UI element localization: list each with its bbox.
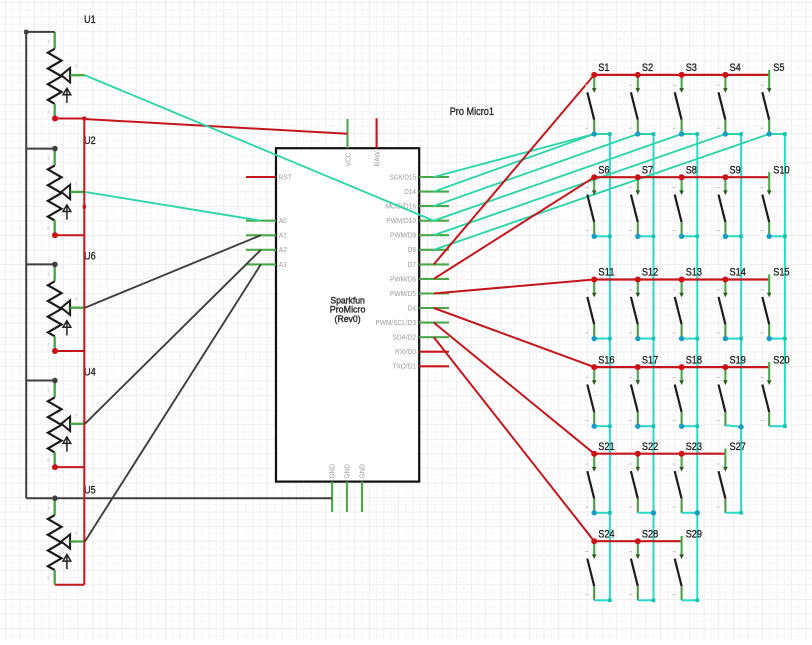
pin 2 (bottom) [637, 120, 639, 134]
wire column 3 vertical [696, 134, 698, 600]
switch S5 [760, 62, 784, 134]
wire S15 bottom to column [769, 338, 785, 340]
switch S21 [585, 441, 614, 513]
wire S12 bottom to column [638, 338, 654, 340]
svg-text:S29: S29 [686, 528, 702, 540]
pin 2 (bottom) [768, 120, 770, 134]
bendpoint column 5 [783, 235, 787, 239]
lever [762, 385, 769, 413]
junction S1 bottom [592, 131, 597, 136]
junction S4 top [722, 72, 728, 78]
wire S4 bottom to column [725, 133, 741, 135]
svg-text:S8: S8 [686, 164, 697, 176]
svg-text:S18: S18 [686, 354, 702, 366]
pin 1 (top) [593, 75, 595, 89]
potentiometer U5 [47, 484, 96, 584]
pin 1 (top) [593, 177, 595, 191]
junction U1 bottom [52, 116, 58, 122]
svg-text:RXI/D0: RXI/D0 [395, 349, 416, 356]
junction S11 bottom [592, 336, 597, 341]
wire U6 wiper to A1 [85, 235, 261, 308]
pin D14 [419, 191, 449, 193]
resistive element zigzag [48, 515, 62, 570]
switch S22 [629, 441, 658, 513]
wiper pin 3 [61, 417, 70, 431]
junction S8 bottom [679, 234, 684, 239]
adjustment arrow [66, 206, 68, 220]
pin 2 (bottom) [681, 586, 683, 600]
junction S17 bottom [635, 424, 640, 429]
wire S23 bottom to column [682, 512, 698, 514]
svg-text:(Rev0): (Rev0) [335, 314, 361, 324]
lever [719, 195, 726, 223]
svg-text:D7: D7 [408, 262, 416, 269]
lever [587, 297, 594, 325]
pin TXO/D1 [419, 365, 449, 367]
svg-text:U4: U4 [84, 367, 96, 379]
pin D7 [419, 263, 449, 265]
lever [631, 385, 638, 413]
bendpoint column 2 end [652, 599, 656, 603]
lever [587, 92, 594, 120]
junction S9 top [722, 174, 728, 180]
junction S15 bottom [767, 336, 772, 341]
switch S27 [716, 441, 745, 513]
pin 2 (bottom) [681, 412, 683, 426]
bendpoint column 4 [739, 132, 743, 136]
wire S22 bottom to column [638, 512, 654, 514]
svg-text:SDA/D2: SDA/D2 [393, 335, 417, 342]
svg-text:A2: A2 [279, 247, 287, 254]
svg-text:Pro Micro1: Pro Micro1 [450, 106, 494, 118]
IC body outline [276, 148, 419, 481]
svg-text:S14: S14 [730, 267, 746, 279]
bendpoint column 2 [652, 132, 656, 136]
pin A2 [246, 249, 276, 251]
lever [631, 195, 638, 223]
pin 2 (bottom) [768, 222, 770, 236]
pin 2 (bottom) [593, 586, 595, 600]
potentiometer U1 [47, 14, 96, 119]
bendpoint column 3 [696, 424, 700, 428]
junction S5 bottom [767, 131, 772, 136]
wire PWM/D6 to row 2 [434, 177, 594, 279]
wire column 2 vertical [653, 134, 655, 600]
pin PWM/D5 [419, 292, 449, 294]
junction S8 top [679, 174, 685, 180]
wire red bus: vertical [83, 119, 85, 585]
lever [675, 471, 682, 499]
svg-text:GND: GND [330, 464, 337, 479]
junction S17 top [635, 364, 641, 370]
switch S28 [629, 528, 658, 600]
potentiometer U2 [47, 135, 96, 235]
junction S13 bottom [679, 336, 684, 341]
wire S5 bottom to column [769, 133, 785, 135]
wire S21 bottom to column [594, 512, 610, 514]
adjustment arrow [66, 556, 68, 570]
adjustment arrow [66, 322, 68, 336]
svg-text:S15: S15 [773, 267, 789, 279]
lever [719, 385, 726, 413]
pin 1 (top) [593, 454, 595, 468]
pin 1 (top) [637, 177, 639, 191]
wire row 2 bus [594, 176, 769, 178]
wire U2 wiper to A0 [85, 192, 261, 221]
pin D4 [419, 307, 449, 309]
wire gray bus: branch to U2 top [26, 148, 55, 150]
svg-text:S21: S21 [598, 441, 614, 453]
pin A0 [246, 220, 276, 222]
wire S29 bottom to column end [682, 599, 698, 601]
bendpoint column 1 [608, 424, 612, 428]
pin 2 (bottom) [724, 120, 726, 134]
junction S12 top [635, 277, 641, 283]
svg-text:S12: S12 [642, 267, 658, 279]
pin 1 (top) [681, 280, 683, 294]
pin 2 (bottom) [593, 412, 595, 426]
junction S2 bottom [635, 131, 640, 136]
switch S24 [585, 528, 614, 600]
pin GND [346, 482, 348, 512]
pin 1 (top) [637, 75, 639, 89]
bendpoint column 1 [608, 132, 612, 136]
switch S8 [673, 164, 697, 236]
pin 2 (bottom) [593, 120, 595, 134]
pin 2 (bottom) [637, 222, 639, 236]
svg-text:VCC: VCC [345, 153, 352, 167]
pin 1 (top) [54, 264, 56, 281]
pin 2 (bottom) [724, 412, 726, 426]
junction U2 bottom [52, 232, 58, 238]
junction S23 top [679, 451, 685, 457]
bendpoint column 1 [608, 337, 612, 341]
pin 1 (top) [768, 70, 770, 89]
pin 1 (top) [593, 367, 595, 381]
potentiometer U6 [47, 251, 96, 351]
pin PWM/D10 [419, 220, 449, 222]
wire S8 bottom to column [682, 235, 698, 237]
switch S12 [629, 267, 658, 339]
wire gray bus: bottom run to GND pin [26, 497, 332, 499]
wire S16 bottom to column [594, 425, 610, 427]
svg-text:S19: S19 [730, 354, 746, 366]
switch S11 [585, 267, 614, 339]
wire S3 bottom to column [682, 133, 698, 135]
wire PWM/D10 to column 3 [434, 134, 682, 221]
pin 2 (bottom) [637, 412, 639, 426]
junction S7 top [635, 174, 641, 180]
wire column 4 vertical [740, 134, 742, 513]
wiper pin 3 [61, 301, 70, 315]
svg-text:A3: A3 [279, 262, 287, 269]
pin 2 (bottom) [593, 222, 595, 236]
wire S11 bottom to column [594, 338, 610, 340]
switch S6 [585, 164, 609, 236]
pin RST [246, 176, 276, 178]
pin SCK/D15 [419, 176, 449, 178]
svg-text:U1: U1 [84, 14, 96, 26]
svg-text:S7: S7 [642, 164, 653, 176]
svg-text:PWM/SCL/D3: PWM/SCL/D3 [376, 320, 417, 327]
pin 1 (top) [724, 367, 726, 381]
switch S23 [673, 441, 702, 513]
switch S9 [716, 164, 740, 236]
pin RAW [376, 118, 378, 148]
pin 1 (top) [681, 177, 683, 191]
junction U2 top [52, 146, 58, 152]
svg-text:RAW: RAW [374, 151, 381, 167]
wire gray bus: branch to U6 top [26, 263, 55, 265]
bendpoint column 5 end [783, 424, 787, 428]
pin RXI/D0 [419, 351, 449, 353]
pin 1 (top) [768, 172, 770, 191]
bendpoint at gray bus corner [24, 30, 28, 34]
svg-text:S24: S24 [598, 528, 614, 540]
svg-text:S17: S17 [642, 354, 658, 366]
pin 1 (top) [54, 32, 56, 49]
svg-text:PWM/D10: PWM/D10 [386, 218, 416, 225]
pin 2 (bottom) [681, 120, 683, 134]
wiper pin 3 [61, 534, 70, 548]
wiper pin 3 [61, 68, 70, 82]
bendpoint column 3 [696, 337, 700, 341]
junction S7 bottom [635, 234, 640, 239]
wire S19 bottom to column [725, 425, 741, 427]
pin 1 (top) [681, 454, 683, 468]
pin 2 (bottom) [54, 336, 56, 351]
svg-text:GND: GND [360, 464, 367, 479]
svg-text:A1: A1 [279, 233, 287, 240]
pin 2 (bottom) [593, 324, 595, 338]
lever [675, 385, 682, 413]
junction S16 bottom [592, 424, 597, 429]
wire D4 to row 4 [434, 308, 594, 367]
bendpoint column 5 [783, 132, 787, 136]
pin 1 (top) [54, 381, 56, 398]
junction S6 bottom [592, 234, 597, 239]
pin 1 (top) [724, 75, 726, 89]
bendpoint column 1 [608, 235, 612, 239]
wire red bus: branch to pot bottom [55, 466, 84, 468]
pin MOSI/D16 [419, 205, 449, 207]
wire gray bus: branch to U4 top [26, 380, 55, 382]
wire S20 bottom to column end [769, 425, 785, 427]
bendpoint column 2 [652, 235, 656, 239]
wire red: U1 bottom to bend [55, 118, 84, 120]
junction S14 bottom [723, 336, 728, 341]
pin 1 (top) [637, 367, 639, 381]
switch S17 [629, 354, 658, 426]
svg-text:S5: S5 [773, 62, 784, 74]
lever [762, 92, 769, 120]
switch S19 [716, 354, 745, 426]
junction S3 bottom [679, 131, 684, 136]
bendpoint column 2 [652, 337, 656, 341]
svg-text:SCK/D15: SCK/D15 [390, 174, 416, 181]
junction U5 top [52, 495, 58, 501]
wire gray bus: U1 top to corner [26, 31, 55, 33]
lever [719, 471, 726, 499]
bendpoint column 3 [696, 235, 700, 239]
junction S18 bottom [679, 424, 684, 429]
junction S23 on column [695, 510, 700, 515]
wire U1 wiper to PWM/D10 [85, 75, 434, 221]
svg-text:S4: S4 [730, 62, 741, 74]
wire S24 bottom to column end [594, 599, 610, 601]
lever [762, 195, 769, 223]
wire red bus: branch to pot bottom [55, 584, 84, 586]
pin 2 (bottom) [54, 452, 56, 467]
wire S9 bottom to column [725, 235, 741, 237]
svg-text:PWM/D5: PWM/D5 [390, 291, 416, 298]
svg-text:S28: S28 [642, 528, 658, 540]
pin 1 (top) [54, 498, 56, 515]
svg-text:S9: S9 [730, 164, 741, 176]
wire S27 bottom to column end [725, 512, 741, 514]
pin 1 (top) [768, 274, 770, 293]
bendpoint column 4 end [739, 511, 743, 515]
switch S4 [716, 62, 740, 134]
pin 1 (top) [637, 280, 639, 294]
pin 2 (bottom) [681, 222, 683, 236]
wire row 4 bus [594, 366, 769, 368]
switch S15 [760, 267, 789, 339]
wire PWM/SCL/D3 to row 5 [434, 323, 594, 454]
pin 1 (top) [54, 149, 56, 166]
wire S17 bottom to column [638, 425, 654, 427]
resistive element zigzag [48, 166, 62, 221]
svg-text:U5: U5 [84, 484, 96, 496]
pin 1 (top) [768, 362, 770, 381]
wire red bus: branch to pot bottom [55, 234, 84, 236]
lever [587, 195, 594, 223]
pin 2 (bottom) [724, 324, 726, 338]
lever [675, 297, 682, 325]
wire S13 bottom to column [682, 338, 698, 340]
lever [675, 195, 682, 223]
bendpoint column 1 end [608, 599, 612, 603]
wire PWM/D5 to row 3 [434, 280, 594, 294]
wire MOSI/D16 to column 2 [434, 134, 638, 206]
svg-text:S27: S27 [730, 441, 746, 453]
svg-text:PWM/D9: PWM/D9 [390, 233, 416, 240]
pin 2 (bottom) [724, 222, 726, 236]
pin 2 (bottom) [54, 104, 56, 119]
adjustment arrow [66, 89, 68, 103]
junction S24 top [591, 538, 597, 544]
pin SDA/D2 [419, 336, 449, 338]
bendpoint column 3 end [696, 599, 700, 603]
switch S1 [585, 62, 609, 134]
svg-text:GND: GND [345, 464, 352, 479]
switch S10 [760, 164, 789, 236]
pin A3 [246, 263, 276, 265]
svg-text:S16: S16 [598, 354, 614, 366]
wire row 6 bus [594, 540, 681, 542]
wire column 5 vertical [784, 134, 786, 426]
svg-text:S23: S23 [686, 441, 702, 453]
wire D8 to column 5 [434, 134, 769, 250]
resistive element zigzag [48, 49, 62, 104]
pin 2 (bottom) [724, 499, 726, 513]
lever [675, 559, 682, 587]
lever [719, 92, 726, 120]
bendpoint column 4 [739, 337, 743, 341]
wire column 1 vertical [609, 134, 611, 600]
junction S14 top [722, 277, 728, 283]
wire SCK/D15 to column 1 [434, 134, 594, 177]
junction S2 top [635, 72, 641, 78]
svg-text:D4: D4 [408, 305, 416, 312]
pin 2 (bottom) [593, 499, 595, 513]
svg-text:S3: S3 [686, 62, 697, 74]
IC Pro Micro1 (Sparkfun ProMicro Rev0) [246, 118, 449, 512]
svg-text:S13: S13 [686, 267, 702, 279]
pin 1 (top) [681, 367, 683, 381]
pin 2 (bottom) [768, 412, 770, 426]
pin 2 (bottom) [637, 499, 639, 513]
bendpoint red bus [82, 117, 86, 121]
svg-text:D14: D14 [404, 189, 416, 196]
wire red: bend to VCC pin [84, 119, 347, 134]
svg-text:PWM/D6: PWM/D6 [390, 276, 416, 283]
pin 2 (bottom) [54, 221, 56, 236]
junction U6 bottom [52, 348, 58, 354]
resistive element zigzag [48, 281, 62, 336]
svg-text:A0: A0 [279, 218, 287, 225]
svg-text:RST: RST [279, 174, 293, 181]
switch S18 [673, 354, 702, 426]
lever [587, 385, 594, 413]
lever [587, 471, 594, 499]
svg-text:U2: U2 [84, 135, 96, 147]
wire row 1 bus [594, 74, 769, 76]
wiper pin 3 [61, 185, 70, 199]
bendpoint column 1 [608, 511, 612, 515]
pin PWM/D6 [419, 278, 449, 280]
svg-text:S10: S10 [773, 164, 789, 176]
pin 2 (bottom) [54, 570, 56, 585]
junction S18 top [679, 364, 685, 370]
lever [631, 297, 638, 325]
pin VCC [346, 119, 348, 148]
switch S7 [629, 164, 653, 236]
svg-text:TXO/D1: TXO/D1 [393, 364, 417, 371]
svg-text:S1: S1 [598, 62, 609, 74]
junction S10 bottom [767, 234, 772, 239]
svg-text:S11: S11 [598, 267, 614, 279]
junction S21 bottom [592, 510, 597, 515]
wire row 3 bus [594, 278, 769, 280]
pin 1 (top) [724, 280, 726, 294]
pin 1 (top) [593, 280, 595, 294]
switch S29 [673, 528, 702, 600]
adjustment arrow [66, 438, 68, 452]
svg-text:D8: D8 [408, 247, 416, 254]
lever [631, 471, 638, 499]
pin D8 [419, 249, 449, 251]
junction S11 top [591, 277, 597, 283]
bendpoint column 4 [739, 235, 743, 239]
wire U4 wiper to A2 [85, 250, 261, 424]
wire S1 bottom to column [594, 133, 610, 135]
wire S14 bottom to column [725, 338, 741, 340]
wire gray bus: left vertical [25, 31, 27, 498]
pin 2 (bottom) [681, 499, 683, 513]
resistive element zigzag [48, 397, 62, 452]
junction S6 top [591, 174, 597, 180]
